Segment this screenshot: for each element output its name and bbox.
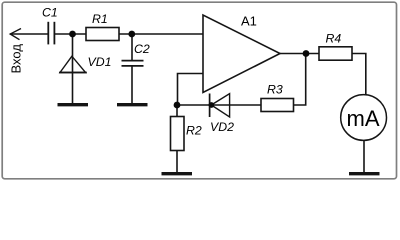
svg-text:A1: A1: [241, 14, 257, 29]
wire op-amp inverting input: [178, 74, 204, 106]
input arrow: [10, 29, 21, 40]
wire R2 to ground: [176, 151, 178, 173]
resistor R2: [171, 117, 185, 151]
capacitor C2: [122, 61, 144, 66]
wire C2 branch: [131, 34, 133, 61]
junction R1/C2: [128, 31, 135, 38]
wire C1 to R1: [54, 33, 86, 35]
ground (C2): [117, 103, 148, 106]
wire R4 to meter: [352, 54, 366, 95]
wire C2 to ground: [131, 66, 133, 103]
ground (VD1): [58, 103, 89, 106]
resistor R1: [86, 28, 119, 41]
wire input to C1: [10, 33, 48, 35]
junction feedback/R2: [174, 102, 181, 109]
resistor R4: [319, 47, 352, 60]
wire R1 to op-amp input: [119, 33, 203, 35]
wire R3 to output riser: [294, 54, 306, 106]
junction C1/VD1: [69, 31, 76, 38]
wire feedback horizontal: [177, 104, 261, 106]
wire VD1 branch: [72, 34, 74, 103]
svg-text:R4: R4: [326, 32, 342, 46]
wire junction to R2: [176, 105, 178, 117]
op-amp A1: [203, 15, 280, 93]
ground (meter): [349, 172, 380, 175]
diode VD1: [59, 56, 87, 72]
svg-text:C1: C1: [42, 6, 58, 20]
svg-text:R3: R3: [267, 83, 283, 97]
svg-text:R1: R1: [92, 12, 108, 26]
resistor R3: [261, 99, 294, 112]
ground (R2): [162, 172, 193, 175]
svg-text:VD2: VD2: [210, 120, 234, 134]
svg-text:mA: mA: [347, 106, 380, 131]
svg-text:VD1: VD1: [88, 55, 112, 69]
junction output: [303, 50, 310, 57]
svg-text:R2: R2: [186, 124, 202, 138]
wire op-amp output: [280, 53, 319, 55]
junction VD2 cathode: [209, 102, 215, 108]
wire meter to ground: [363, 140, 365, 172]
svg-text:C2: C2: [134, 42, 150, 56]
capacitor C1: [48, 22, 54, 45]
svg-text:Вход: Вход: [8, 44, 23, 74]
diode VD2: [210, 94, 230, 118]
meter mA: [341, 95, 387, 141]
